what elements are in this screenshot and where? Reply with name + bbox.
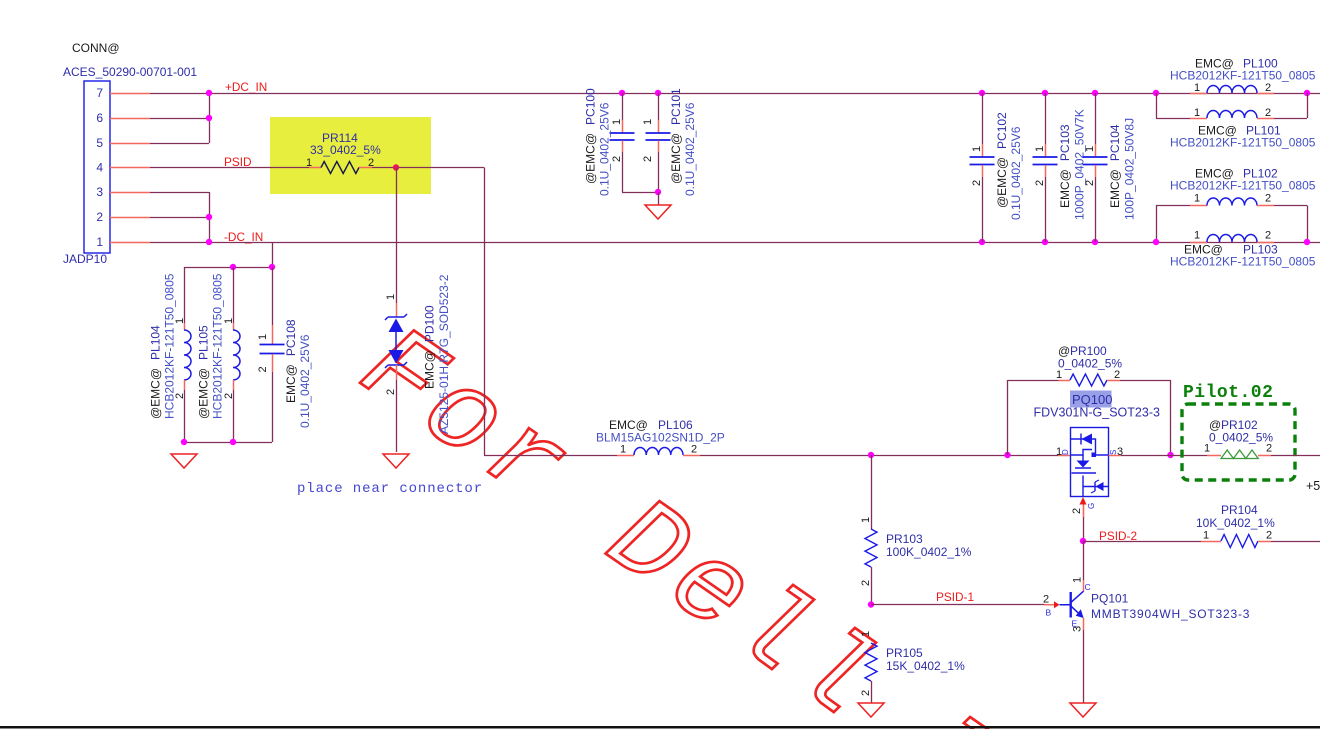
wire -DC_IN rail (209, 242, 1320, 244)
inductor PL104 (184, 267, 186, 323)
wire filter top bus (184, 267, 272, 269)
wire PSID right of PR114 (372, 167, 484, 169)
svg-text:place near connector: place near connector (297, 481, 483, 497)
svg-text:G: G (1087, 503, 1096, 509)
svg-text:1: 1 (860, 631, 872, 637)
svg-text:@EMC@PL104: @EMC@PL104 (149, 325, 163, 419)
svg-text:2: 2 (971, 180, 983, 186)
svg-text:2: 2 (611, 156, 623, 162)
svg-text:HCB2012KF-121T50_0805: HCB2012KF-121T50_0805 (1170, 136, 1316, 150)
svg-text:2: 2 (860, 690, 872, 696)
connector JADP10 body (84, 81, 110, 253)
capacitor PC108 (272, 267, 274, 325)
svg-text:BLM15AG102SN1D_2P: BLM15AG102SN1D_2P (596, 431, 725, 445)
svg-text:AZ5125-01H.R7G_SOD523-2: AZ5125-01H.R7G_SOD523-2 (437, 274, 451, 434)
wire PQ100 source down (1083, 517, 1085, 541)
svg-text:2: 2 (1265, 230, 1271, 242)
svg-text:HCB2012KF-121T50_0805: HCB2012KF-121T50_0805 (163, 273, 177, 419)
svg-text:1: 1 (620, 444, 626, 456)
svg-text:HCB2012KF-121T50_0805: HCB2012KF-121T50_0805 (1170, 69, 1316, 83)
svg-text:2: 2 (1034, 180, 1046, 186)
svg-text:1: 1 (1072, 577, 1084, 583)
svg-text:EMC@PC103: EMC@PC103 (1058, 124, 1072, 208)
svg-text:+DC_IN: +DC_IN (225, 80, 267, 94)
svg-text:1: 1 (1084, 146, 1096, 152)
svg-text:2: 2 (96, 210, 103, 224)
svg-text:MMBT3904WH_SOT323-3: MMBT3904WH_SOT323-3 (1091, 607, 1250, 621)
ground below PD100 (383, 454, 409, 468)
svg-text:2: 2 (1071, 508, 1083, 514)
svg-text:1: 1 (385, 294, 397, 300)
svg-text:2: 2 (1114, 369, 1120, 381)
junction PL100 left (1153, 90, 1159, 96)
ground below PC100/PC101 (645, 205, 671, 219)
junction PC103 bottom (1042, 239, 1048, 245)
svg-text:EMC@PC108: EMC@PC108 (284, 319, 298, 403)
wire mid net left (484, 455, 617, 457)
wire collector (1083, 541, 1085, 580)
transistor PQ101 base arrow (1044, 604, 1054, 606)
svg-text:15K_0402_1%: 15K_0402_1% (886, 659, 965, 673)
junction filter bottom PL105 (230, 439, 236, 445)
svg-text:1: 1 (1194, 193, 1200, 205)
svg-text:PR103: PR103 (886, 532, 923, 546)
wire pins 3-2-1 vertical (209, 192, 211, 242)
inductor PL105 (233, 267, 235, 323)
svg-text:Pilot.02: Pilot.02 (1183, 383, 1273, 403)
junction pin6 (206, 115, 212, 121)
svg-text:0.1U_0402_25V6: 0.1U_0402_25V6 (1009, 126, 1023, 220)
junction pin2 (206, 214, 212, 220)
wire pins 5-6-7 vertical (209, 93, 211, 143)
wire PL102 right drop (1307, 206, 1309, 243)
wire PR100 right leg (1170, 380, 1172, 455)
svg-text:HCB2012KF-121T50_0805: HCB2012KF-121T50_0805 (1170, 179, 1316, 193)
svg-text:PQ101: PQ101 (1091, 592, 1129, 606)
svg-text:6: 6 (96, 111, 103, 125)
wire emitter to ground (1083, 630, 1085, 703)
svg-text:33_0402_5%: 33_0402_5% (310, 143, 381, 157)
junction PL103 left (1153, 239, 1159, 245)
svg-text:C: C (1085, 582, 1091, 592)
junction PSID-2 (1080, 538, 1086, 544)
wire PR100 left leg (1007, 380, 1009, 455)
svg-text:1: 1 (257, 334, 269, 340)
svg-text:D: D (1061, 449, 1070, 455)
junction PSID/PD100 (393, 164, 399, 170)
junction PC104 bottom (1092, 239, 1098, 245)
ground below PR105 (858, 703, 884, 717)
wire pin7 to +DC_IN node (150, 93, 209, 95)
svg-text:2: 2 (691, 444, 697, 456)
svg-text:0_0402_5%: 0_0402_5% (1058, 357, 1122, 371)
junction PR100 right/mid net (1167, 452, 1173, 458)
junction filter bottom gnd (181, 439, 187, 445)
svg-text:1: 1 (1194, 230, 1200, 242)
svg-text:1: 1 (1204, 443, 1210, 455)
svg-text:0_0402_5%: 0_0402_5% (1209, 431, 1273, 445)
svg-text:0.1U_0402_25V6: 0.1U_0402_25V6 (598, 102, 612, 196)
svg-text:2: 2 (860, 580, 872, 586)
svg-text:2: 2 (1265, 193, 1271, 205)
wire PSID from pin4 (150, 167, 309, 169)
junction PC100 top (619, 90, 625, 96)
wire PC100/PC101 bottom bus (622, 192, 658, 194)
svg-text:1: 1 (1194, 82, 1200, 94)
svg-text:5: 5 (96, 136, 103, 150)
svg-text:1: 1 (642, 119, 654, 125)
transistor PQ100 body (1058, 455, 1071, 457)
svg-text:2: 2 (1266, 530, 1272, 542)
transistor PQ100 highlight (1070, 391, 1112, 408)
junction PC102 top (979, 90, 985, 96)
ground below PQ101 (1070, 703, 1096, 717)
svg-text:1: 1 (1203, 530, 1209, 542)
svg-text:@EMC@PL105: @EMC@PL105 (197, 325, 211, 419)
diode PD100 (TVS) (396, 168, 398, 304)
svg-text:1: 1 (611, 119, 623, 125)
svg-text:@EMC@PC100: @EMC@PC100 (584, 88, 598, 184)
svg-text:4: 4 (96, 161, 103, 175)
resistor PR104 (1083, 541, 1201, 543)
svg-text:2: 2 (1043, 594, 1049, 606)
svg-text:2: 2 (223, 393, 235, 399)
wire PSID-2 to edge (1271, 541, 1320, 543)
svg-text:100K_0402_1%: 100K_0402_1% (886, 545, 972, 559)
svg-text:2: 2 (257, 366, 269, 372)
svg-text:HCB2012KF-121T50_0805: HCB2012KF-121T50_0805 (211, 273, 225, 419)
svg-text:EMC@PC104: EMC@PC104 (1108, 124, 1122, 208)
wire pin5 (150, 143, 209, 145)
wire mid net right of PQ100 (1121, 455, 1207, 457)
svg-text:1: 1 (971, 146, 983, 152)
svg-text:S: S (1109, 450, 1118, 455)
junction PC104 top (1092, 90, 1098, 96)
svg-text:@EMC@PC101: @EMC@PC101 (669, 88, 683, 184)
svg-text:2: 2 (1265, 82, 1271, 94)
svg-text:2: 2 (642, 156, 654, 162)
junction PC101 top (655, 90, 661, 96)
svg-text:1: 1 (1034, 146, 1046, 152)
svg-text:7: 7 (96, 86, 103, 100)
resistor PR103 (871, 455, 873, 529)
svg-text:1: 1 (860, 517, 872, 523)
junction PR103 top (868, 452, 874, 458)
svg-text:100P_0402_50V8J: 100P_0402_50V8J (1123, 118, 1137, 220)
wire pin2 (150, 217, 209, 219)
wire pin1 to -DC_IN node (150, 242, 209, 244)
junction PR100 left (1004, 452, 1010, 458)
junction pin7/+DC_IN (206, 90, 212, 96)
svg-text:PR104: PR104 (1221, 503, 1258, 517)
svg-text:0.1U_0402_25V6: 0.1U_0402_25V6 (298, 334, 312, 428)
svg-text:CONN@: CONN@ (72, 41, 120, 55)
wire PL101 left drop (1156, 93, 1158, 118)
svg-text:0.1U_0402_25V6: 0.1U_0402_25V6 (683, 102, 697, 196)
junction pin1/-DC_IN (206, 239, 212, 245)
bottom border line (0, 726, 1320, 729)
svg-text:1: 1 (1056, 369, 1062, 381)
svg-text:HCB2012KF-121T50_0805: HCB2012KF-121T50_0805 (1170, 255, 1316, 269)
junction PC102 bottom (979, 239, 985, 245)
svg-text:3: 3 (96, 185, 103, 199)
wire filter bottom bus (184, 442, 272, 444)
wire mid net to right edge (1271, 455, 1320, 457)
junction PL100 right (1304, 90, 1310, 96)
svg-text:+5: +5 (1306, 479, 1320, 493)
wire mid net to PQ100 (700, 455, 1058, 457)
transistor PQ100 pin2 arrow (1080, 497, 1087, 505)
svg-text:PSID-1: PSID-1 (936, 590, 974, 604)
Pilot.02 dashed box (1182, 404, 1295, 480)
junction PC101 gnd (655, 189, 661, 195)
svg-text:1: 1 (1194, 107, 1200, 119)
wire +DC_IN rail (209, 93, 1320, 95)
svg-text:3: 3 (1072, 626, 1084, 632)
wire pin3 (150, 192, 209, 194)
svg-text:2: 2 (1266, 443, 1272, 455)
svg-text:1: 1 (223, 318, 235, 324)
svg-text:B: B (1046, 608, 1052, 618)
junction filter top PC108 (269, 264, 275, 270)
junction filter top PL105 (230, 264, 236, 270)
wire PL102 left rise (1156, 206, 1158, 243)
ground below filter block (171, 454, 197, 468)
junction PSID-1 (868, 601, 874, 607)
junction PL103 right (1304, 239, 1310, 245)
svg-text:ACES_50290-00701-001: ACES_50290-00701-001 (63, 65, 197, 79)
wire pin6 (150, 118, 209, 120)
svg-text:FDV301N-G_SOT23-3: FDV301N-G_SOT23-3 (1034, 406, 1160, 420)
wire PL101 right rise (1307, 93, 1309, 118)
svg-text:@EMC@PC102: @EMC@PC102 (995, 112, 1009, 208)
svg-text:2: 2 (385, 389, 397, 395)
svg-text:1: 1 (96, 235, 103, 249)
svg-text:10K_0402_1%: 10K_0402_1% (1196, 516, 1275, 530)
svg-text:PR105: PR105 (886, 646, 923, 660)
wire -DC_IN to filter bus (272, 242, 274, 267)
wire PSID-1 to PQ101 base (871, 604, 1044, 606)
svg-text:2: 2 (1084, 180, 1096, 186)
svg-text:JADP10: JADP10 (63, 252, 107, 266)
svg-text:2: 2 (1265, 107, 1271, 119)
wire PSID drop to mid net (484, 168, 486, 456)
junction PC103 top (1042, 90, 1048, 96)
highlight box around resistor PR114 (270, 117, 431, 194)
